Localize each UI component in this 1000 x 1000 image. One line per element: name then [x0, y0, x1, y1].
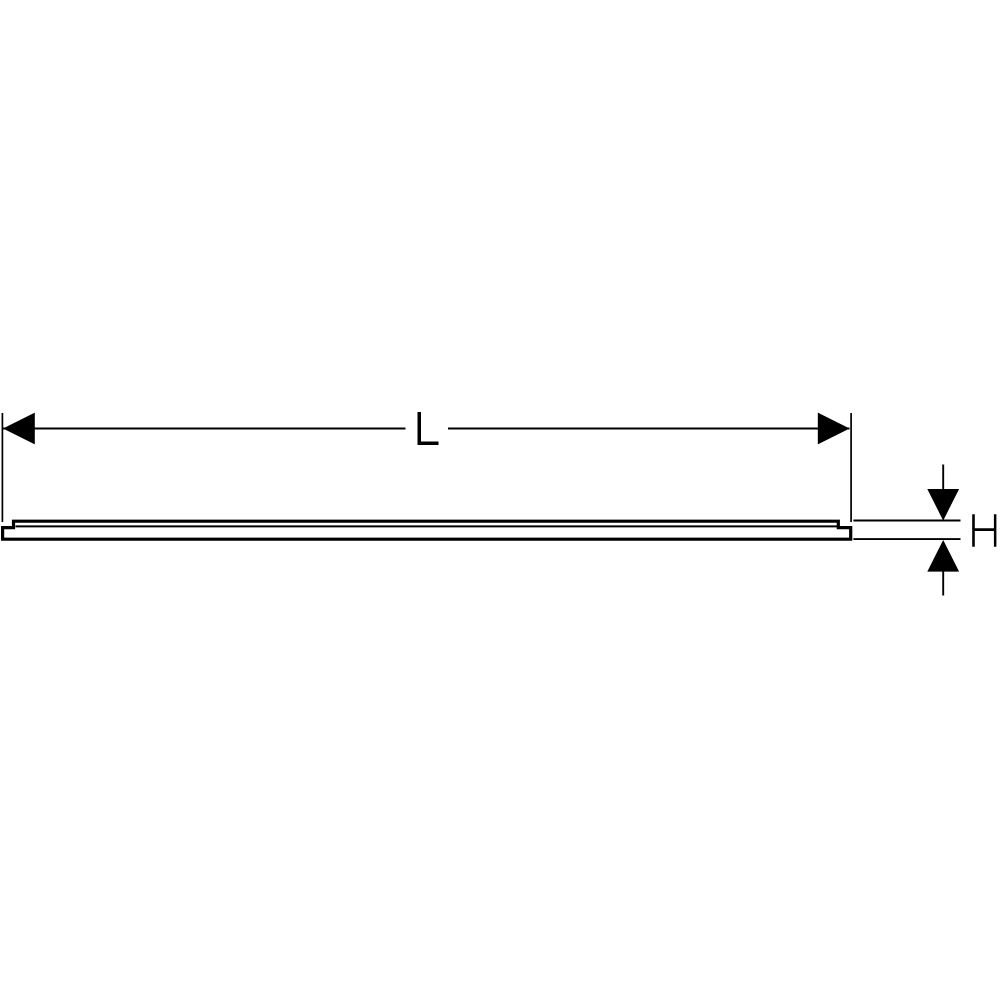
H dimension: up arrowhead — [927, 540, 959, 572]
L dimension: right extension line — [850, 413, 852, 522]
H dimension: up arrow tail — [942, 571, 944, 596]
L dimension: right arrowhead — [818, 413, 850, 445]
label L — [418, 412, 439, 445]
H dimension: down arrowhead — [927, 489, 959, 521]
L dimension line (right segment) — [448, 428, 850, 430]
panel inner edge line — [16, 525, 838, 527]
panel outline (stepped thin slab, side view) — [3, 521, 851, 539]
H dimension: down arrow tail — [942, 465, 944, 490]
L dimension line (left segment) — [3, 428, 406, 430]
L dimension: left arrowhead — [3, 413, 35, 445]
H dimension: top extension line — [853, 520, 960, 522]
L dimension: left extension line — [1, 413, 3, 522]
H dimension: bottom extension line — [853, 538, 960, 540]
label H — [972, 514, 996, 547]
